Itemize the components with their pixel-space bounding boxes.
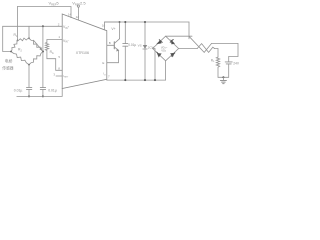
svg-text:VREF2.5: VREF2.5 bbox=[72, 0, 86, 6]
node bridge top vertex bbox=[28, 37, 30, 39]
pin 14 label bbox=[68, 12, 72, 16]
svg-text:V+: V+ bbox=[111, 27, 115, 31]
pin Vin- label bbox=[63, 39, 70, 44]
svg-text:传感器: 传感器 bbox=[2, 65, 14, 70]
ground bbox=[222, 76, 224, 78]
op-amp U1 XTR106 outline bbox=[62, 14, 107, 89]
label XTR106 bbox=[76, 51, 89, 55]
resistor R3 bridge bottom-left arm bbox=[11, 52, 29, 65]
pin 1 number bbox=[58, 35, 60, 39]
resistor RG bottom staircase bbox=[47, 51, 62, 71]
svg-text:0.01µ: 0.01µ bbox=[48, 89, 57, 93]
label sensor chinese bbox=[2, 59, 14, 71]
svg-text:O: O bbox=[104, 74, 106, 76]
resistor RG zigzag bbox=[45, 42, 48, 50]
label R1 bbox=[14, 33, 18, 38]
pin 12 drop and terminal Vref2.5 bbox=[77, 5, 79, 7]
svg-text:RG: RG bbox=[50, 50, 54, 55]
wire right vertex drop through C2 bbox=[42, 26, 44, 87]
wire left drop to bridge left vertex bbox=[3, 26, 11, 51]
wire bottom loop rail bbox=[107, 61, 166, 80]
node bridge bend dot bbox=[17, 40, 19, 42]
pin 3 stub bbox=[56, 75, 62, 77]
pin Vin+ label bbox=[63, 25, 70, 30]
wire Vin+ rail bbox=[3, 25, 63, 27]
pin 7 IO at bottom corner bbox=[108, 75, 110, 79]
wire Vref5 top rail bbox=[18, 7, 72, 18]
svg-text:3: 3 bbox=[53, 72, 55, 76]
diode VD2 bbox=[170, 40, 174, 44]
twisted pair bbox=[189, 36, 212, 52]
diode VD4 bbox=[171, 53, 175, 57]
wire bridge right vertex to line bbox=[179, 48, 198, 50]
wire line bottom drop to RL bbox=[214, 49, 218, 58]
label RG bbox=[50, 50, 54, 55]
wire emitter to pin E bbox=[107, 50, 119, 62]
svg-text:7: 7 bbox=[108, 75, 110, 79]
label R2 bbox=[18, 48, 22, 53]
resistor RG loop top bbox=[47, 40, 62, 43]
diode VD1 bbox=[157, 40, 162, 44]
wire collector up bbox=[119, 22, 121, 39]
wire V+ rail to line bbox=[105, 21, 190, 23]
node collector dot bbox=[118, 21, 120, 23]
svg-text:XTR106: XTR106 bbox=[76, 51, 89, 55]
resistor RL bbox=[216, 57, 219, 77]
node Vref5 label bbox=[49, 0, 60, 6]
pin 2 number bbox=[58, 22, 60, 26]
label bridge bbox=[161, 45, 168, 52]
node junction dot A bbox=[42, 25, 44, 27]
svg-text:电桥: 电桥 bbox=[5, 59, 13, 64]
wire Vref drop to bridge bbox=[17, 7, 19, 41]
svg-text:14: 14 bbox=[68, 12, 72, 16]
zener diode VS drop bbox=[144, 22, 146, 45]
wire bottom right bbox=[218, 76, 229, 78]
capacitor C3 drop bbox=[124, 22, 126, 43]
wire bridge bottom drop bbox=[28, 65, 30, 87]
svg-text:5: 5 bbox=[58, 55, 60, 59]
pin 5 number bbox=[58, 55, 60, 59]
diode bridge rectifier bbox=[153, 36, 179, 61]
arrow variable element across bridge bbox=[34, 40, 42, 50]
wire bridge top riser bbox=[28, 26, 30, 38]
node bridge left vertex bbox=[10, 51, 12, 53]
svg-text:8: 8 bbox=[58, 66, 60, 70]
pin E label bbox=[102, 61, 104, 65]
svg-text:IRET: IRET bbox=[63, 74, 69, 79]
svg-text:R2: R2 bbox=[18, 48, 22, 53]
capacitor C1 bbox=[27, 87, 32, 89]
node bridge bottom vertex bbox=[28, 64, 30, 66]
wire line top to right bbox=[212, 43, 238, 56]
wire bridge left vertex drop bbox=[153, 49, 155, 81]
diode VD3 bbox=[157, 52, 161, 57]
pin 8 number bbox=[58, 66, 60, 70]
svg-text:12: 12 bbox=[76, 15, 80, 19]
node bridge right vertex dot bbox=[42, 50, 44, 52]
svg-text:1: 1 bbox=[58, 35, 60, 39]
svg-text:10: 10 bbox=[102, 23, 106, 27]
svg-text:VIN+: VIN+ bbox=[63, 25, 70, 30]
svg-text:VS: VS bbox=[138, 43, 142, 47]
svg-text:RL: RL bbox=[211, 58, 215, 63]
svg-text:E: E bbox=[102, 61, 104, 65]
svg-text:2: 2 bbox=[58, 22, 60, 26]
resistor R4 bridge bottom-right arm bbox=[29, 52, 43, 65]
resistor R2 bridge top-right arm bbox=[29, 38, 43, 51]
capacitor load branch bbox=[228, 57, 230, 62]
svg-text:VREF5: VREF5 bbox=[49, 0, 60, 6]
svg-text:0.01µ: 0.01µ bbox=[128, 43, 136, 47]
wire bottom-left rail bbox=[17, 89, 62, 97]
capacitor C2 bbox=[40, 87, 45, 89]
wire line drop bbox=[188, 22, 190, 39]
svg-text:VIN−: VIN− bbox=[63, 39, 70, 44]
svg-text:24V: 24V bbox=[233, 62, 240, 66]
pin 10 stub V+ bbox=[105, 22, 121, 30]
transistor Q1 bbox=[107, 44, 114, 46]
wire bridge top to line junction bbox=[166, 35, 192, 37]
svg-text:0.01µ: 0.01µ bbox=[14, 89, 23, 93]
svg-text:B: B bbox=[109, 41, 111, 45]
resistor R1 bridge top-left arm bbox=[18, 38, 30, 41]
